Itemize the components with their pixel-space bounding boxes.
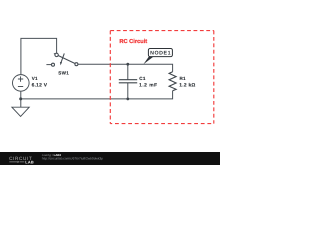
ground [12,107,29,116]
svg-text:C1: C1 [139,76,146,81]
svg-text:6.12 V: 6.12 V [32,83,48,89]
node junction dot top C1 [126,63,129,66]
svg-text:V1: V1 [32,76,38,81]
svg-text:R1: R1 [180,76,187,81]
svg-text:LAB: LAB [25,160,34,165]
wire C1 bottom lead [127,83,129,99]
svg-text:RC Circuit: RC Circuit [119,38,147,45]
RC Circuit annotation box (red dashed) [110,31,214,124]
voltage source V1 [12,75,29,92]
switch SW1 [52,53,78,66]
svg-text:NODE1: NODE1 [150,51,171,57]
wire V1 bottom to ground [20,91,22,107]
switch arrow head [60,62,62,65]
node junction dot ground [19,97,22,100]
svg-text:http://circuitlab.com/c/676r7t: http://circuitlab.com/c/676r7tu8/2wb0dwk… [42,157,103,161]
svg-text:SW1: SW1 [58,71,69,76]
svg-text:1.2 kΩ: 1.2 kΩ [179,83,195,89]
NODE1 callout tail [143,56,153,64]
node junction dot bottom C1 [126,98,129,101]
NODE1 callout box [148,49,172,57]
wire V1 top to switch [21,38,57,74]
resistor R1 [169,72,176,91]
wire bottom rail [21,91,173,99]
wire switch to R1 top [78,64,173,72]
footer bar [0,152,220,165]
footer logo waveform line [9,161,24,163]
svg-text:1.2 mF: 1.2 mF [139,83,158,89]
wire switch left stub [46,64,51,66]
wire C1 top lead [127,64,129,79]
capacitor C1 [119,80,137,83]
